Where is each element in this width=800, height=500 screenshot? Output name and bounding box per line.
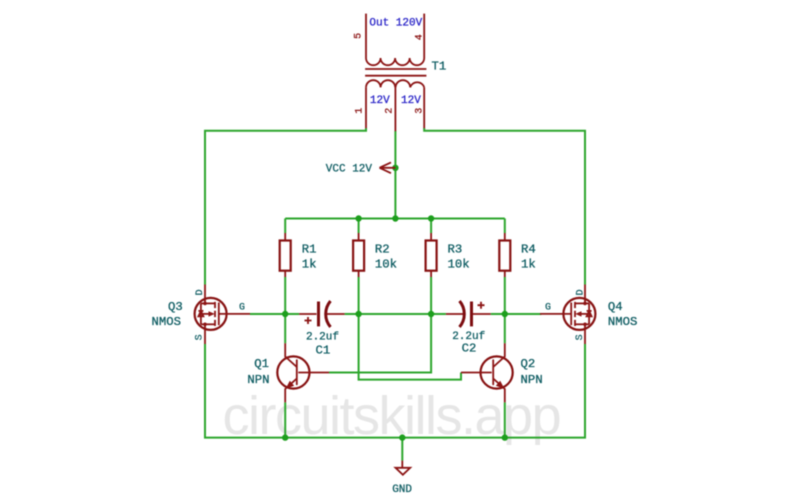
svg-text:5: 5 <box>353 33 364 39</box>
svg-text:D: D <box>195 289 206 295</box>
svg-text:S: S <box>194 334 205 340</box>
svg-text:GND: GND <box>392 484 412 496</box>
svg-text:Q3: Q3 <box>168 300 183 314</box>
svg-text:R1: R1 <box>302 242 317 256</box>
svg-text:1: 1 <box>355 108 366 114</box>
svg-text:G: G <box>239 302 245 313</box>
svg-text:VCC 12V: VCC 12V <box>326 164 373 176</box>
svg-text:NMOS: NMOS <box>608 315 638 329</box>
svg-text:R4: R4 <box>521 242 536 256</box>
svg-text:C1: C1 <box>316 344 331 358</box>
svg-text:R3: R3 <box>448 242 463 256</box>
svg-text:NPN: NPN <box>521 373 543 387</box>
svg-text:1k: 1k <box>302 258 317 272</box>
svg-text:G: G <box>545 302 551 313</box>
svg-text:10k: 10k <box>448 258 470 272</box>
svg-text:T1: T1 <box>432 59 447 73</box>
svg-text:D: D <box>575 289 586 295</box>
svg-text:R2: R2 <box>375 242 390 256</box>
svg-text:S: S <box>575 334 586 340</box>
svg-text:4: 4 <box>414 34 425 40</box>
svg-text:C2: C2 <box>462 342 477 356</box>
svg-text:2: 2 <box>385 108 396 114</box>
svg-text:Out 120V: Out 120V <box>369 18 422 30</box>
svg-text:3: 3 <box>414 108 425 114</box>
svg-text:2.2uf: 2.2uf <box>306 332 339 344</box>
svg-text:10k: 10k <box>375 258 397 272</box>
svg-text:12V: 12V <box>370 95 390 107</box>
svg-text:1k: 1k <box>521 258 536 272</box>
svg-text:NPN: NPN <box>247 373 269 387</box>
svg-text:Q1: Q1 <box>254 357 269 371</box>
svg-text:Q4: Q4 <box>608 300 623 314</box>
svg-text:Q2: Q2 <box>521 357 536 371</box>
svg-text:12V: 12V <box>401 95 421 107</box>
svg-text:NMOS: NMOS <box>152 315 182 329</box>
